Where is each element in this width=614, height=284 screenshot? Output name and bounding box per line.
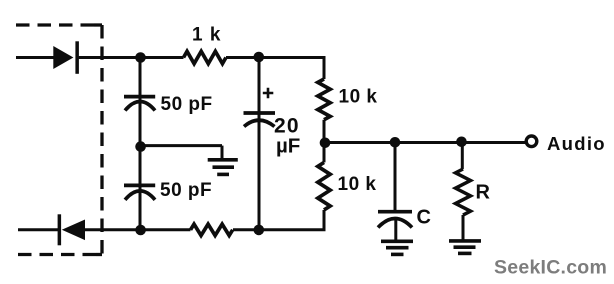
diode D2 (bottom, cathode left) xyxy=(58,214,85,245)
wire: internal ground stem xyxy=(221,146,224,159)
svg-text:50 pF: 50 pF xyxy=(160,180,212,201)
wire: mid rail to audio terminal xyxy=(324,141,526,144)
resistor 1 k xyxy=(184,51,226,63)
node: junction mid rail at C xyxy=(390,137,401,148)
dashed enclosure corner patches xyxy=(94,25,102,255)
ground (internal, mid) xyxy=(208,160,238,175)
resistor R xyxy=(456,169,471,215)
capacitor 20 uF (electrolytic) xyxy=(244,113,276,127)
wire: R to ground xyxy=(462,215,465,241)
wire: bottom rail input xyxy=(18,228,59,231)
node: junction mid-left xyxy=(135,141,146,152)
svg-text:1 k: 1 k xyxy=(192,25,221,46)
wire: 20uF column (series cap) xyxy=(258,57,261,230)
terminal: Audio output (open circle) xyxy=(526,136,537,147)
wire: 10k upper to mid junction xyxy=(323,120,326,143)
capacitor C xyxy=(378,212,412,228)
wire: top rail diode to 1k resistor xyxy=(79,56,184,59)
wire: bottom rail right with corner up to 10k lower xyxy=(233,210,324,230)
resistor 10 k (lower) xyxy=(318,162,330,210)
resistor (bottom rail, unlabeled) xyxy=(191,224,233,235)
capacitor 50 pF (upper) xyxy=(124,97,155,111)
svg-text:10 k: 10 k xyxy=(338,174,377,195)
diode D1 (top, anode left) xyxy=(53,41,79,74)
ground (below R) xyxy=(449,241,481,254)
node: junction top-center xyxy=(253,52,264,63)
wire: bottom rail diode to resistor xyxy=(84,228,191,231)
node: junction bottom-center xyxy=(253,225,264,236)
wire: top rail input xyxy=(16,56,54,59)
node: junction top-left xyxy=(135,52,146,63)
svg-text:R: R xyxy=(476,182,491,204)
wire: C stem to ground xyxy=(394,219,397,241)
resistor 10 k (upper) xyxy=(318,79,330,120)
polarity mark + xyxy=(263,88,274,99)
node: junction bottom-left xyxy=(135,225,146,236)
ground (below C) xyxy=(381,241,413,254)
svg-text:SeekIC.com: SeekIC.com xyxy=(494,257,607,279)
wire: R branch from mid rail xyxy=(461,143,464,170)
svg-text:µF: µF xyxy=(276,135,300,158)
wire: 10k lower top lead xyxy=(323,143,326,163)
wire: C branch from mid rail xyxy=(394,143,397,214)
svg-text:50 pF: 50 pF xyxy=(161,94,213,115)
wire: junction to internal ground xyxy=(140,144,222,147)
wire: top rail 1k to corner, down to 10k xyxy=(226,58,324,80)
wire: left vertical column (caps in series) xyxy=(139,58,142,230)
capacitor 50 pF (lower) xyxy=(124,185,155,199)
svg-text:C: C xyxy=(417,207,431,229)
svg-text:10 k: 10 k xyxy=(339,87,378,108)
dashed enclosure (detector block) xyxy=(16,25,102,255)
svg-text:Audio: Audio xyxy=(547,133,606,154)
node: junction mid rail at R xyxy=(456,137,467,148)
node: junction mid rail at 10k xyxy=(320,138,331,149)
